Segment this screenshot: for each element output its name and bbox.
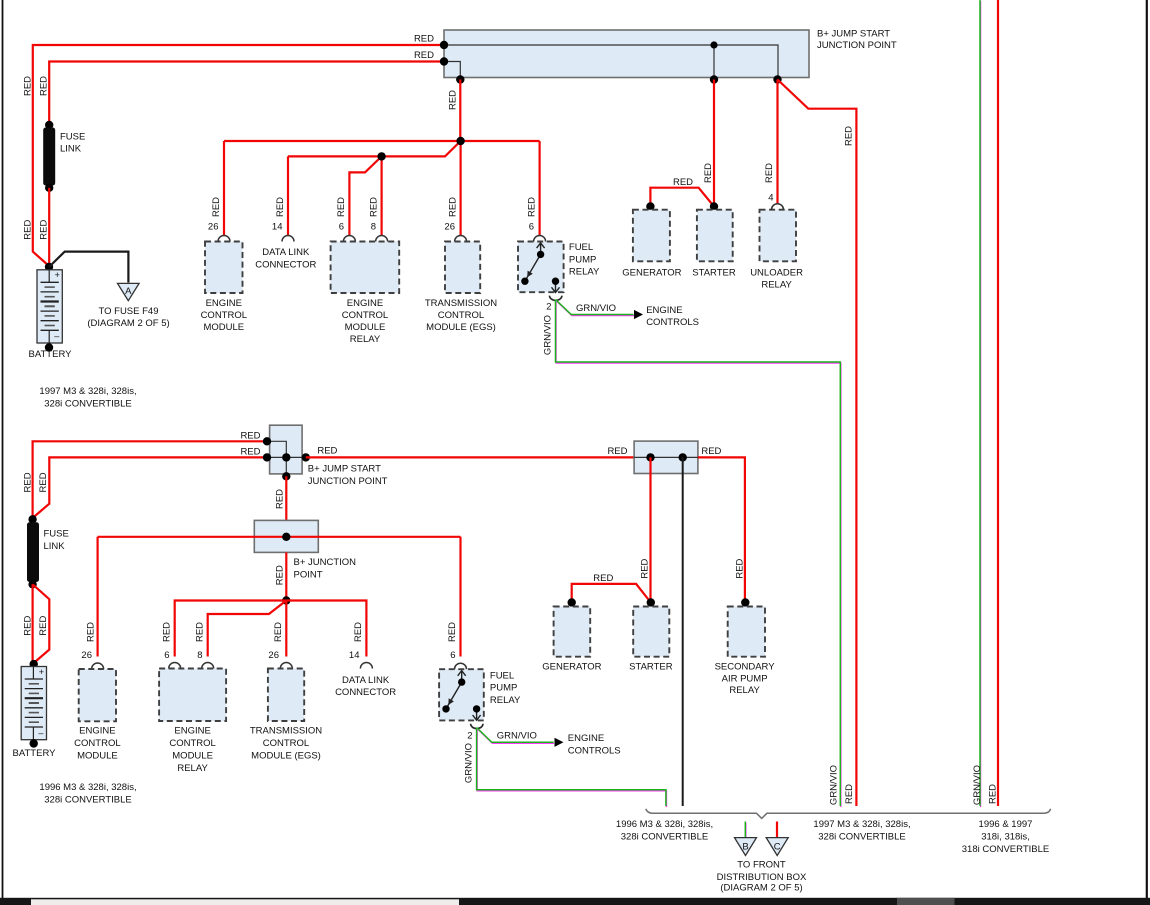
svg-text:CONTROLS: CONTROLS: [646, 317, 699, 328]
svg-text:318i CONVERTIBLE: 318i CONVERTIBLE: [962, 844, 1049, 855]
svg-text:1996 M3 & 328i, 328is,: 1996 M3 & 328i, 328is,: [616, 819, 713, 830]
scrollbar thumb left: [31, 899, 459, 905]
svg-text:JUNCTION POINT: JUNCTION POINT: [308, 476, 388, 487]
label TRANSMISSION CONTROL MODULE EGS (bottom): [250, 726, 322, 762]
svg-text:(DIAGRAM 2 OF 5): (DIAGRAM 2 OF 5): [720, 883, 802, 894]
svg-text:2: 2: [467, 731, 472, 742]
wire RED drop ECM pin26 (top): [223, 141, 225, 236]
svg-text:TO FUSE F49: TO FUSE F49: [98, 306, 158, 317]
wire GRN/VIO to engine controls (bottom): [477, 728, 554, 744]
svg-text:318i, 318is,: 318i, 318is,: [981, 832, 1030, 843]
junction dot wire2 at box (top): [440, 57, 448, 65]
svg-text:B+ JUNCTION: B+ JUNCTION: [294, 557, 357, 568]
wire internal jog x460 (top junction box): [444, 62, 460, 80]
wire RED long vertical (right pair): [997, 0, 999, 806]
svg-text:26: 26: [268, 650, 279, 661]
junction dot right (bottom jump box): [302, 453, 310, 461]
arrowhead engine controls (bottom): [555, 738, 564, 747]
label FUEL PUMP RELAY (bottom): [490, 670, 521, 706]
fuel pump relay box (top): [518, 242, 564, 293]
svg-text:1996 M3 & 328i, 328is,: 1996 M3 & 328i, 328is,: [39, 782, 136, 793]
engine control module box (bottom): [79, 669, 116, 721]
svg-text:ENGINE: ENGINE: [206, 298, 242, 309]
generator terminal dot (bottom): [568, 598, 576, 606]
svg-text:RED: RED: [703, 163, 714, 183]
fuse link bottom terminal (bottom): [28, 580, 36, 588]
wire RED right box to starter (bottom): [649, 457, 651, 602]
label FUEL PUMP RELAY (top): [569, 242, 600, 278]
svg-text:RED: RED: [640, 558, 651, 578]
svg-text:RED: RED: [275, 197, 286, 217]
wire RED fuse to battery (top): [48, 188, 50, 266]
wire GRN/VIO down-right run (top): [556, 300, 841, 808]
wire RED drop ECM pin26 (bottom): [96, 537, 98, 657]
svg-text:RED: RED: [735, 558, 746, 578]
svg-text:PUMP: PUMP: [569, 254, 596, 265]
svg-text:TRANSMISSION: TRANSMISSION: [250, 726, 322, 737]
label UNLOADER RELAY: [750, 268, 803, 291]
transmission control module box (bottom): [268, 669, 304, 722]
svg-text:CONTROL: CONTROL: [263, 738, 309, 749]
svg-text:2: 2: [546, 302, 551, 313]
svg-text:1996 & 1997: 1996 & 1997: [979, 819, 1033, 830]
scrollbar track: [0, 898, 1150, 905]
svg-text:RELAY: RELAY: [177, 763, 208, 774]
wire internal pass (bottom jump box): [267, 456, 306, 458]
wire RED branch to ECM relay pin6 (top): [349, 156, 381, 236]
svg-text:RED: RED: [274, 489, 285, 509]
svg-text:LINK: LINK: [60, 144, 82, 155]
svg-text:–: –: [54, 331, 59, 341]
svg-text:RED: RED: [673, 177, 693, 188]
wire internal pass (right junction box): [634, 456, 698, 458]
svg-text:RED: RED: [38, 616, 49, 636]
junction box B+ jump start (bottom): [270, 425, 303, 474]
svg-text:B+ JUMP START: B+ JUMP START: [308, 464, 381, 475]
pin 26 (TCM bottom): [280, 663, 292, 669]
svg-text:RED: RED: [274, 565, 285, 585]
svg-text:328i CONVERTIBLE: 328i CONVERTIBLE: [818, 832, 905, 843]
svg-text:GRN/VIO: GRN/VIO: [542, 315, 553, 355]
svg-text:6: 6: [450, 650, 455, 661]
pin 6 (ECM relay top): [343, 236, 355, 242]
fuel pump relay box (bottom): [439, 669, 484, 720]
label SECONDARY AIR PUMP RELAY: [715, 662, 776, 697]
svg-text:TO FRONT: TO FRONT: [737, 860, 786, 871]
svg-text:B+ JUMP START: B+ JUMP START: [817, 29, 890, 40]
generator box (top): [633, 210, 670, 262]
secondary air pump relay terminal dot: [741, 598, 749, 606]
svg-text:SECONDARY: SECONDARY: [715, 662, 776, 673]
junction dot wire1 at box (top): [440, 41, 448, 49]
pin 8 (ECM relay bottom): [202, 663, 214, 669]
svg-text:6: 6: [529, 222, 534, 233]
wire RED stub to connector C: [776, 822, 778, 838]
page left border: [2, 0, 4, 899]
wire internal bus (top junction box): [444, 45, 778, 78]
svg-text:RED: RED: [368, 197, 379, 217]
svg-text:RED: RED: [317, 446, 337, 457]
junction box B+ jump start (top): [444, 30, 809, 78]
wire RED junction box to bus dot (bottom): [285, 552, 287, 600]
pin 26 (TCM top): [455, 236, 467, 242]
wire RED drop ECM relay pin8 (top): [381, 156, 383, 236]
wire RED drop to bus (top): [459, 80, 461, 142]
label ENGINE CONTROL MODULE (bottom): [74, 726, 120, 762]
wire RED drop TCM pin26 (bottom): [285, 601, 287, 657]
svg-text:RED: RED: [353, 622, 364, 642]
off-page connector A: [118, 283, 140, 300]
svg-text:RED: RED: [526, 197, 537, 217]
svg-text:GRN/VIO: GRN/VIO: [463, 743, 474, 783]
svg-text:POINT: POINT: [294, 570, 323, 581]
svg-text:RED: RED: [22, 616, 33, 636]
wire RED bus y156 (top): [288, 141, 461, 156]
label bracket 1996 M3: [616, 819, 713, 843]
junction dot wire2 (bottom jump box): [263, 453, 271, 461]
svg-text:RED: RED: [987, 784, 998, 804]
wire RED jump to junction box (bottom): [285, 476, 287, 520]
svg-text:RELAY: RELAY: [761, 280, 792, 291]
svg-text:DATA LINK: DATA LINK: [342, 675, 390, 686]
wire RED feed 1 (bottom): [33, 441, 267, 518]
junction dot bus (bottom): [282, 596, 290, 604]
scrollbar thumb right gray: [897, 898, 955, 905]
pin 2 (fuel pump relay top): [550, 296, 562, 301]
junction dot inside B+ junction box: [282, 533, 290, 541]
pin 8 (ECM relay top): [376, 236, 388, 242]
starter terminal dot (bottom): [647, 598, 655, 606]
svg-text:CONNECTOR: CONNECTOR: [335, 687, 396, 698]
svg-text:MODULE (EGS): MODULE (EGS): [251, 751, 321, 762]
battery (top): [37, 270, 62, 343]
svg-text:LINK: LINK: [44, 541, 66, 552]
svg-text:ENGINE: ENGINE: [174, 726, 210, 737]
wire GRN/VIO stub to connector B: [744, 822, 747, 839]
junction dot left (right junction box): [646, 453, 654, 461]
junction dot below box x460 (top): [456, 75, 464, 83]
svg-text:BATTERY: BATTERY: [29, 349, 73, 360]
fuse link bottom terminal (top): [45, 184, 53, 192]
svg-text:DISTRIBUTION BOX: DISTRIBUTION BOX: [717, 872, 807, 883]
svg-text:RED: RED: [607, 446, 627, 457]
page right border: [1146, 0, 1148, 899]
svg-text:MODULE: MODULE: [172, 751, 213, 762]
generator box (bottom): [554, 607, 591, 657]
wire RED feed 2 (top): [49, 62, 444, 125]
svg-text:RED: RED: [240, 431, 260, 442]
junction box right (bottom): [634, 441, 698, 473]
junction dot below box x714 (top): [710, 75, 718, 83]
svg-text:+: +: [39, 667, 44, 677]
wire GRN/VIO to engine controls (top): [556, 300, 635, 316]
svg-text:RED: RED: [22, 472, 33, 492]
svg-text:GRN/VIO: GRN/VIO: [972, 765, 983, 805]
svg-text:14: 14: [349, 650, 360, 661]
svg-text:RED: RED: [38, 472, 49, 492]
fuel pump relay switch symbol (bottom): [442, 671, 480, 721]
svg-text:MODULE: MODULE: [77, 751, 118, 762]
label FUSE LINK (top): [60, 132, 85, 155]
svg-text:CONTROL: CONTROL: [169, 738, 215, 749]
svg-text:RED: RED: [844, 126, 855, 146]
label TO FUSE F49 (DIAGRAM 2 OF 5): [87, 306, 169, 329]
fuse link top terminal (bottom): [28, 515, 36, 523]
svg-text:RED: RED: [447, 90, 458, 110]
pin 6 (fuel pump relay bottom): [455, 663, 467, 669]
svg-text:RED: RED: [194, 622, 205, 642]
wire RED fuse to battery A (bottom): [31, 584, 33, 663]
label B+ JUMP START JUNCTION POINT (bottom): [308, 464, 388, 488]
svg-text:328i CONVERTIBLE: 328i CONVERTIBLE: [621, 832, 708, 843]
wire black to fuse F49: [49, 252, 128, 283]
pin 14 (DLC bottom): [360, 663, 372, 669]
wire internal jog (bottom jump box): [267, 441, 286, 476]
label 1996 M3 section (bottom): [39, 782, 136, 806]
battery positive terminal dot (top): [45, 263, 53, 271]
wire BLACK right box to bracket: [682, 457, 684, 806]
svg-text:CONTROL: CONTROL: [438, 310, 484, 321]
svg-text:14: 14: [272, 222, 283, 233]
svg-text:UNLOADER: UNLOADER: [750, 268, 803, 279]
pin 26 (ECM top): [218, 236, 230, 242]
label B+ JUMP START JUNCTION POINT (top): [817, 29, 897, 52]
pin 26 (ECM bottom): [92, 663, 104, 669]
svg-text:RED: RED: [86, 622, 97, 642]
svg-text:ENGINE: ENGINE: [79, 726, 115, 737]
wire GRN/VIO down-right run (bottom): [477, 728, 667, 808]
starter box (top): [697, 210, 733, 262]
svg-text:328i CONVERTIBLE: 328i CONVERTIBLE: [44, 795, 131, 806]
pin 6 (ECM relay bottom): [169, 663, 181, 669]
svg-text:STARTER: STARTER: [629, 662, 673, 673]
svg-text:RED: RED: [22, 76, 33, 96]
wire RED to secondary air pump relay: [698, 457, 745, 602]
svg-text:RED: RED: [414, 34, 434, 45]
wire RED diagonal to right run: [778, 80, 857, 807]
wire RED drop TCM pin26 (top): [460, 141, 462, 236]
svg-text:26: 26: [444, 222, 455, 233]
svg-text:AIR PUMP: AIR PUMP: [722, 673, 768, 684]
label ENGINE CONTROLS (top): [646, 305, 699, 328]
svg-text:RED: RED: [764, 163, 775, 183]
svg-text:–: –: [38, 728, 43, 738]
svg-text:RED: RED: [447, 197, 458, 217]
svg-text:MODULE: MODULE: [345, 322, 386, 333]
fuel pump relay switch symbol (top): [521, 243, 559, 293]
label bracket 1996-1997 318i: [962, 819, 1049, 855]
svg-text:JUNCTION POINT: JUNCTION POINT: [817, 40, 897, 51]
svg-text:FUSE: FUSE: [44, 529, 69, 540]
wire RED drop to unloader relay: [776, 80, 778, 204]
svg-text:CONTROLS: CONTROLS: [568, 746, 621, 757]
fuse link (bottom): [27, 522, 39, 582]
svg-text:1997 M3 & 328i, 328is,: 1997 M3 & 328i, 328is,: [39, 386, 136, 397]
svg-text:RELAY: RELAY: [350, 334, 381, 345]
battery (bottom): [21, 667, 46, 740]
arrowhead engine controls (top): [634, 310, 643, 319]
wire GRN/VIO long vertical (right pair): [979, 0, 982, 807]
svg-text:RED: RED: [161, 622, 172, 642]
svg-text:ENGINE: ENGINE: [347, 298, 383, 309]
label FUSE LINK (bottom): [44, 529, 69, 553]
svg-text:RED: RED: [22, 220, 33, 240]
off-page connector B: [735, 838, 757, 856]
svg-text:CONTROL: CONTROL: [342, 310, 388, 321]
svg-text:8: 8: [197, 650, 202, 661]
wire RED drop DLC pin14 (top): [287, 156, 289, 236]
svg-text:GRN/VIO: GRN/VIO: [497, 731, 537, 742]
svg-text:B: B: [742, 842, 748, 853]
wire RED bus y141 (top): [224, 140, 540, 142]
label ENGINE CONTROL MODULE RELAY (top): [342, 298, 388, 345]
battery positive terminal dot (bottom): [30, 660, 38, 668]
svg-text:TRANSMISSION: TRANSMISSION: [425, 298, 497, 309]
svg-text:ENGINE: ENGINE: [568, 733, 604, 744]
wire internal drop x714 (top junction box): [713, 45, 715, 79]
svg-text:FUSE: FUSE: [60, 132, 85, 143]
svg-text:GENERATOR: GENERATOR: [542, 662, 601, 673]
svg-text:6: 6: [164, 650, 169, 661]
junction dot right (right junction box): [679, 453, 687, 461]
pin 6 (fuel pump relay top): [534, 236, 546, 242]
svg-text:RED: RED: [844, 784, 855, 804]
svg-text:1997 M3 & 328i, 328is,: 1997 M3 & 328i, 328is,: [813, 819, 910, 830]
svg-text:4: 4: [768, 193, 773, 204]
battery negative terminal dot (bottom): [30, 739, 38, 747]
svg-text:CONTROL: CONTROL: [201, 310, 247, 321]
svg-text:A: A: [125, 286, 132, 297]
junction dot internal (bottom jump box): [282, 453, 290, 461]
svg-text:GRN/VIO: GRN/VIO: [576, 303, 616, 314]
svg-text:PUMP: PUMP: [490, 683, 517, 694]
pin 4 (unloader relay): [772, 204, 784, 210]
svg-text:MODULE: MODULE: [203, 322, 244, 333]
svg-text:DATA LINK: DATA LINK: [262, 247, 310, 258]
svg-text:RELAY: RELAY: [490, 695, 521, 706]
svg-text:RED: RED: [414, 50, 434, 61]
svg-text:RELAY: RELAY: [729, 685, 760, 696]
wire RED main horizontal y537 (bottom): [98, 536, 461, 538]
pin 14 (DLC top): [282, 236, 294, 242]
wire RED generator-starter link (top): [650, 188, 714, 207]
label ENGINE CONTROLS (bottom): [568, 733, 621, 757]
svg-text:328i CONVERTIBLE: 328i CONVERTIBLE: [44, 399, 131, 410]
junction dot below box x778 (top): [773, 75, 781, 83]
fuse link (top): [43, 128, 55, 186]
wire RED bus right y600 (bottom): [286, 601, 366, 657]
svg-text:FUEL: FUEL: [569, 242, 593, 253]
generator terminal dot (top): [646, 202, 654, 210]
svg-text:RED: RED: [701, 446, 721, 457]
svg-text:CONNECTOR: CONNECTOR: [255, 259, 316, 270]
svg-text:RED: RED: [336, 197, 347, 217]
svg-text:26: 26: [81, 650, 92, 661]
transmission control module box (top): [445, 242, 480, 294]
svg-text:RED: RED: [38, 220, 49, 240]
junction dot wire1 (bottom jump box): [263, 437, 271, 445]
starter box (bottom): [633, 607, 669, 657]
brace over model variants: [646, 809, 1051, 819]
svg-text:26: 26: [208, 222, 219, 233]
label bracket 1997 M3: [813, 819, 910, 843]
battery negative terminal dot (top): [45, 343, 53, 351]
wire RED generator-starter link (bottom): [572, 584, 651, 603]
svg-text:RED: RED: [447, 622, 458, 642]
wire RED fuse to battery B (bottom): [33, 584, 50, 663]
junction box B+ junction point (bottom): [254, 520, 318, 552]
junction dot bottom (bottom jump box): [282, 472, 290, 480]
label TRANSMISSION CONTROL MODULE EGS (top): [425, 298, 497, 333]
junction dot bus (381.6,156.4): [377, 152, 385, 160]
wire RED drop to starter (top): [713, 80, 715, 207]
svg-text:RED: RED: [38, 76, 49, 96]
wire RED drop fuel pump relay pin6 (bottom): [459, 537, 461, 657]
label 1997 M3 section (top): [39, 386, 136, 410]
svg-text:RED: RED: [273, 622, 284, 642]
svg-text:(DIAGRAM 2 OF 5): (DIAGRAM 2 OF 5): [87, 318, 169, 329]
engine control module box (top): [205, 242, 243, 294]
junction dot internal (714,45): [710, 41, 717, 48]
svg-text:STARTER: STARTER: [692, 268, 736, 279]
unloader relay box (top): [760, 210, 797, 262]
wire RED bus left y600 (bottom): [175, 601, 287, 657]
engine control module relay box (top): [331, 242, 400, 294]
label TO FRONT DISTRIBUTION BOX: [717, 860, 807, 894]
wire RED drop fuel pump relay pin6 (top): [538, 141, 540, 236]
svg-text:8: 8: [371, 222, 376, 233]
label ENGINE CONTROL MODULE (top): [201, 298, 247, 333]
off-page connector C: [766, 838, 788, 856]
svg-text:FUEL: FUEL: [490, 670, 514, 681]
svg-text:BATTERY: BATTERY: [13, 748, 57, 759]
wire RED feed 1 (top): [33, 45, 444, 266]
label DATA LINK CONNECTOR (bottom): [335, 675, 396, 698]
label B+ JUNCTION POINT (bottom): [294, 557, 357, 581]
svg-text:+: +: [55, 270, 60, 280]
engine control module relay box (bottom): [159, 669, 226, 722]
fuse link top terminal (top): [45, 121, 53, 129]
starter terminal dot (top): [710, 202, 718, 210]
pin 2 (fuel pump relay bottom): [471, 724, 483, 729]
wire RED bus diag y614 (bottom): [208, 601, 287, 657]
svg-text:RELAY: RELAY: [569, 267, 600, 278]
wire RED feed 2 (bottom): [33, 457, 267, 518]
wire RED jump box to right junction box: [306, 456, 634, 458]
svg-text:ENGINE: ENGINE: [646, 305, 682, 316]
label DATA LINK CONNECTOR (top): [255, 247, 316, 270]
label ENGINE CONTROL MODULE RELAY (bottom): [169, 726, 215, 775]
junction dot bus (460.6,141): [456, 137, 464, 145]
svg-text:RED: RED: [593, 573, 613, 584]
secondary air pump relay box: [728, 607, 765, 657]
svg-text:GRN/VIO: GRN/VIO: [828, 765, 839, 805]
svg-text:MODULE (EGS): MODULE (EGS): [426, 322, 496, 333]
svg-text:CONTROL: CONTROL: [74, 738, 120, 749]
svg-text:GENERATOR: GENERATOR: [622, 268, 681, 279]
svg-text:6: 6: [339, 222, 344, 233]
svg-text:C: C: [774, 842, 781, 853]
svg-text:RED: RED: [240, 447, 260, 458]
svg-text:RED: RED: [211, 197, 222, 217]
